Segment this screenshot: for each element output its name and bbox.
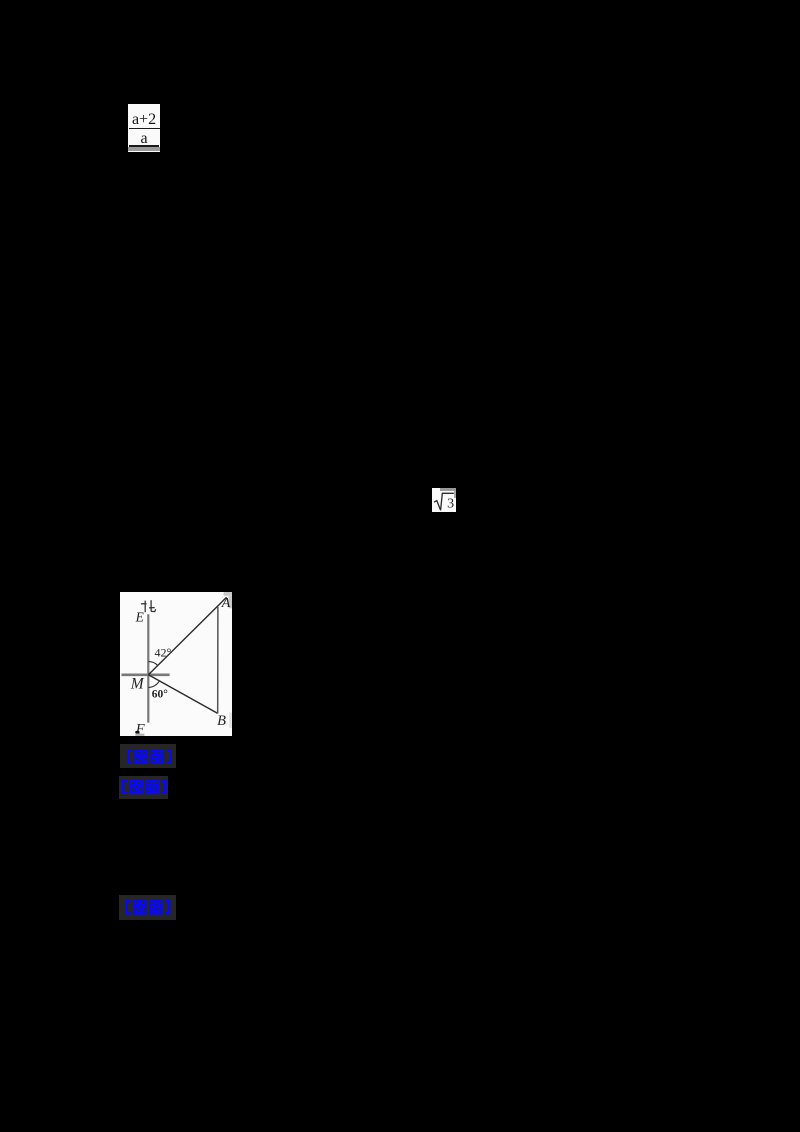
- svg-text:3: 3: [447, 496, 454, 511]
- radical sign: [434, 493, 454, 510]
- svg-text:42°: 42°: [155, 645, 172, 659]
- arc of 60 degree angle: [148, 680, 159, 686]
- black dot near F: [135, 730, 139, 733]
- fraction (a+2)/a equation image: [128, 104, 160, 152]
- svg-text:M: M: [130, 675, 145, 692]
- arc of 42 degree angle: [148, 661, 157, 665]
- horizontal line through M: [121, 673, 169, 676]
- svg-text:A: A: [221, 596, 231, 611]
- gray bottom strip: [128, 147, 160, 151]
- geometry diagram image: [120, 592, 232, 737]
- blue label 1 : answer tag: [120, 744, 176, 768]
- gray corner mark top-right: [224, 592, 233, 596]
- svg-text:E: E: [135, 609, 145, 624]
- fraction bar: [129, 128, 160, 129]
- line M to A: [148, 597, 226, 675]
- blue label 2 : analysis tag: [119, 776, 168, 799]
- blue label 3 : comment tag: [119, 895, 175, 919]
- sqrt(3) equation image: [432, 488, 456, 513]
- underline under denominator: [129, 145, 159, 146]
- gray strip right near B: [229, 712, 232, 727]
- north character 北: [141, 600, 156, 612]
- gray strip top-right: [440, 488, 456, 492]
- svg-text:B: B: [217, 713, 226, 729]
- line A to B vertical: [217, 606, 219, 712]
- svg-text:60°: 60°: [152, 688, 168, 700]
- line M to B: [148, 674, 217, 713]
- gray smudge below dot: [135, 733, 144, 735]
- line EF vertical: [147, 614, 149, 722]
